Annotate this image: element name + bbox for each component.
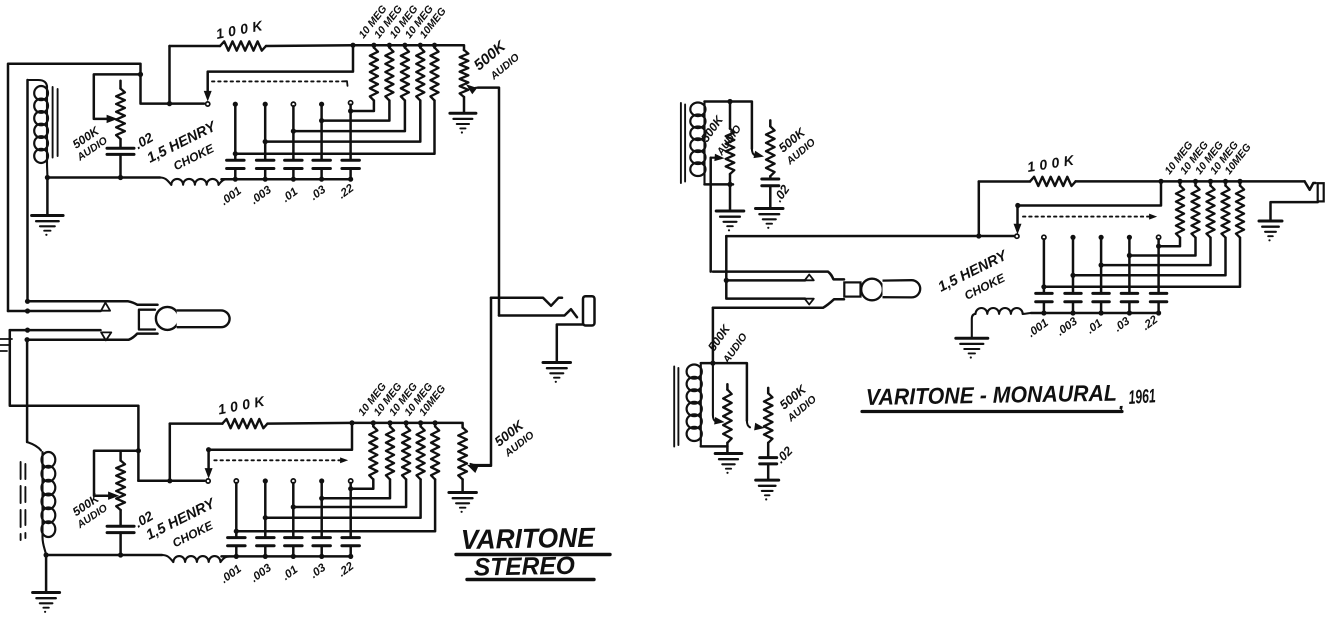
svg-text:.003: .003 — [249, 184, 275, 207]
node: crossing dot on lower spring wire — [25, 328, 30, 333]
switch position contact 3 (top circuit) — [291, 102, 295, 106]
label 10 MEG R1 (top circuit) — [356, 3, 389, 41]
monaural plug collar — [844, 282, 860, 296]
wire: lower coil bottom to pot1b (monaural) — [701, 445, 728, 448]
label 10 MEG R3 (bottom circuit) — [387, 381, 420, 419]
node: R5 to contact wire junction (monaural) — [1041, 284, 1046, 289]
node: C3 bus junction — [291, 177, 296, 182]
jack sleeve bushing — [583, 296, 595, 325]
wire: capacitor ground bus (bottom circuit) — [222, 555, 351, 558]
switch position contact 1 (bottom circuit) — [234, 479, 238, 483]
wire: contact 2 to capacitor C2 (top circuit) — [264, 106, 267, 160]
node: bus junction of 10MEG R1 (top circuit) — [371, 43, 376, 48]
contact triangle up (monaural plug) — [805, 275, 814, 281]
capacitor C3 .01 (top circuit) — [285, 160, 303, 168]
wire: 100K riser — [168, 46, 171, 104]
wiper arrow of output pot (bottom circuit) — [471, 463, 492, 466]
svg-text:.22: .22 — [336, 182, 356, 201]
wire: coil bottom to pot1 bottom (monaural upper) — [705, 183, 734, 186]
stray hatch marks at sheet edge — [0, 339, 12, 351]
node: R1 to contact wire junction (monaural) — [1156, 244, 1161, 249]
node: R5 to contact wire junction (top circuit) — [233, 151, 238, 156]
node: R2 to contact wire junction (bottom circuit) — [319, 496, 324, 501]
resistor R5 10 MEG (monaural) — [1044, 181, 1244, 286]
monaural plug upper body line — [713, 272, 844, 280]
monaural plug lower spring wire — [726, 280, 805, 298]
node: R2 to contact wire junction (top circuit) — [319, 118, 324, 123]
node: bus junction of 10MEG R2 (bottom circuit) — [387, 420, 392, 425]
wire: contact 2 to capacitor C2 (bottom circuit) — [264, 483, 267, 538]
capacitor C5 .22 (top circuit) — [342, 160, 360, 168]
wire: coil top bus (monaural upper) — [705, 102, 752, 149]
resistor R2 10 MEG (bottom circuit) — [322, 423, 394, 498]
potentiometer 500K audio pot2b (monaural lower) — [764, 388, 773, 458]
wiper arrow into pot2b (monaural lower) — [747, 421, 764, 430]
node: bus junction of 10MEG R1 (bottom circuit) — [371, 420, 376, 425]
svg-text:100K: 100K — [215, 16, 269, 42]
wire: jack sleeve to ground — [557, 325, 584, 363]
label 500K AUDIO (pot1, monaural upper) — [698, 112, 744, 158]
svg-text:.01: .01 — [1085, 317, 1105, 336]
label .02 (bottom circuit) — [132, 508, 156, 531]
svg-text:.03: .03 — [308, 183, 328, 202]
inductor 1.5 henry choke (monaural) — [972, 308, 1031, 338]
stereo plug tip ball — [156, 307, 179, 330]
node: C3 bus junction (monaural) — [1099, 310, 1104, 315]
title STEREO — [467, 552, 594, 582]
label 10 MEG R2 (monaural) — [1178, 139, 1211, 177]
node: R3 to contact wire junction (monaural) — [1099, 263, 1104, 268]
capacitor C4 .03 (bottom circuit) — [313, 538, 331, 546]
node: C1 bus junction (monaural) — [1041, 310, 1046, 315]
switch wiper contact (open circle, bottom circuit) — [206, 479, 210, 483]
wire: pickup ground bus (top circuit) — [47, 176, 160, 179]
label .003 capacitor (monaural) — [1055, 315, 1081, 338]
ground under .02 cap (monaural upper) — [756, 209, 784, 229]
jack tip contact line — [491, 298, 562, 306]
wire: plug line to pot1b wiper (monaural lower) — [713, 363, 716, 422]
label 100K (monaural) — [1026, 151, 1079, 175]
svg-text:VARITONE - MONAURAL: VARITONE - MONAURAL — [866, 380, 1117, 410]
label .02 (top circuit) — [132, 129, 156, 152]
capacitor C1 .001 (bottom circuit) — [228, 538, 246, 546]
wire: C5 to ground bus (bottom circuit) — [349, 546, 352, 557]
svg-text:VARITONE: VARITONE — [461, 522, 597, 555]
ground under output pot (bottom circuit) — [449, 493, 477, 513]
label .01 capacitor (top circuit) — [280, 186, 300, 205]
potentiometer 500K audio output (top circuit) — [460, 50, 469, 113]
node: pot1 bottom junction (monaural) — [727, 182, 732, 187]
ground under pickup (bottom circuit) — [33, 555, 60, 613]
node: bus junction of 10MEG R4 (top circuit) — [418, 43, 423, 48]
wire: C3 to ground bus (bottom circuit) — [292, 546, 295, 557]
stereo plug upper body line — [28, 301, 158, 304]
potentiometer 500K audio output (bottom circuit) — [458, 428, 467, 493]
label 100K (bottom circuit) — [217, 392, 271, 418]
label 1.5 HENRY CHOKE (monaural) — [936, 247, 1011, 302]
wire: contact 4 to capacitor C4 (top circuit) — [320, 106, 323, 160]
ground under pot1b (monaural lower) — [715, 454, 742, 474]
label 500K AUDIO (tone pot, bottom circuit) — [70, 491, 110, 532]
dashed rotation line of rotary switch (top circuit) — [212, 81, 348, 86]
capacitor C1 .001 (monaural) — [1036, 293, 1053, 301]
jack tip contact line (monaural) — [1305, 181, 1316, 189]
pickup coil (monaural lower) — [687, 365, 702, 447]
wire: output pot wiper to jack ring contact — [478, 88, 499, 316]
label 10 MEG R4 (monaural) — [1208, 139, 1241, 177]
svg-text:.001: .001 — [219, 185, 244, 208]
node: bus junction of 10MEG R5 (top circuit) — [432, 43, 437, 48]
label 10 MEG R1 (monaural) — [1162, 139, 1195, 177]
dashed rotation line of rotary switch (bottom circuit) — [214, 458, 347, 463]
resistor R2 10 MEG (monaural) — [1129, 181, 1199, 255]
wire: 100K riser (bottom) — [169, 424, 172, 481]
wire: pickup ground bus (bottom circuit) — [46, 554, 162, 557]
pickup core lines (bottom circuit) — [21, 462, 26, 540]
switch position contact 2 (monaural) — [1070, 235, 1075, 240]
wire: switch wiper arm to output bus (monaural) — [1014, 181, 1161, 233]
node J1 (tone pot wiper junction, top circuit) — [138, 72, 143, 77]
wire: C4 to ground bus (bottom circuit) — [320, 546, 323, 557]
wire: J1b to switch common contact (bottom) — [138, 480, 204, 483]
ground of output jack — [543, 363, 571, 383]
switch position contact 4 (bottom circuit) — [319, 478, 324, 483]
capacitor C3 .01 (bottom circuit) — [285, 538, 303, 546]
switch position contact 1 (monaural) — [1042, 235, 1046, 239]
node: bus junction of 10MEG R2 (monaural) — [1193, 179, 1198, 184]
wire: contact 1 to capacitor C1 (top circuit) — [234, 106, 237, 160]
node: bus junction of 10MEG R5 (bottom circuit) — [433, 420, 438, 425]
node: R3 to contact wire junction (top circuit) — [291, 129, 296, 134]
node: .02 cap bus junction (top circuit) — [118, 175, 123, 180]
switch position contact 5 (bottom circuit) — [349, 479, 353, 483]
wiper arrow into pot1b (monaural lower) — [715, 418, 724, 424]
label .01 capacitor (bottom circuit) — [280, 564, 300, 583]
title VARITONE (stereo) — [456, 522, 610, 555]
svg-text:.22: .22 — [1140, 313, 1160, 332]
svg-text:100K: 100K — [1026, 151, 1079, 175]
capacitor C4 .03 (monaural) — [1121, 293, 1138, 301]
node: bus junction of 10MEG R3 (bottom circuit) — [404, 420, 409, 425]
stereo plug collar — [139, 310, 155, 330]
capacitor C2 .003 (bottom circuit) — [257, 538, 275, 546]
label 10 MEG R2 (top circuit) — [372, 3, 405, 41]
capacitor C1 .001 (top circuit) — [227, 160, 245, 168]
wire: contact 1 to capacitor C1 (monaural) — [1043, 239, 1046, 293]
pickup core lines (top circuit) — [53, 87, 58, 158]
wire: contact 3 to capacitor C3 (monaural) — [1100, 239, 1103, 293]
svg-text:.001: .001 — [219, 563, 244, 586]
node: C5 bus junction (monaural) — [1156, 310, 1161, 315]
node: R5 to contact wire junction (bottom circuit) — [234, 529, 239, 534]
label 500K AUDIO (circuit input, monaural lower) — [705, 321, 750, 366]
capacitor C2 .003 (top circuit) — [256, 160, 274, 168]
node: C5 bus junction (bottom) — [348, 554, 353, 559]
pickup core lines (monaural lower) — [674, 367, 678, 447]
node: R2 to contact wire junction (monaural) — [1127, 253, 1132, 258]
label .03 capacitor (monaural) — [1112, 315, 1132, 334]
inductor 1.5 henry choke (bottom circuit) — [162, 555, 230, 562]
ground of output jack (monaural) — [1259, 221, 1282, 241]
wire: contact 3 to capacitor C3 (top circuit) — [292, 106, 295, 160]
label .02 (monaural lower) — [773, 444, 795, 466]
label 1.5 HENRY CHOKE (top circuit) — [145, 118, 220, 173]
node: R4 to contact wire junction (top circuit) — [263, 139, 268, 144]
svg-text:100K: 100K — [217, 392, 271, 418]
ground under pickup (top circuit) — [32, 178, 63, 236]
node J1b (tone pot wiper junction, bottom circuit) — [136, 448, 141, 453]
node: pot1 top junction (monaural) — [727, 99, 732, 104]
label .03 capacitor (bottom circuit) — [308, 561, 328, 580]
wire: tone bus from plug to switch common (monaural) — [726, 235, 1014, 238]
capacitor .02 (top circuit) — [107, 148, 134, 177]
wire: plug springs to tone bus (monaural) — [725, 236, 728, 280]
wire: C4 to ground bus (top circuit) — [320, 169, 323, 180]
resistor R5 10 MEG (bottom circuit) — [236, 423, 439, 531]
resistor R4 10 MEG (bottom circuit) — [265, 423, 424, 518]
switch position contact 2 (top circuit) — [263, 102, 268, 107]
node: 100K riser junction (monaural) — [976, 233, 981, 238]
stereo plug lower body line — [27, 334, 157, 340]
node: R3 to contact wire junction (bottom circuit) — [291, 504, 296, 509]
node: C1 bus junction — [233, 177, 238, 182]
resistor R3 10 MEG (top circuit) — [293, 45, 409, 131]
node: plug upper contact junction — [25, 299, 30, 304]
label 500K AUDIO (pot2, monaural upper) — [776, 125, 818, 168]
wiper arrow of output pot (top circuit) — [467, 85, 478, 94]
jack sleeve bushing (monaural) — [1318, 183, 1324, 201]
label .03 capacitor (top circuit) — [308, 183, 328, 202]
node: C4 bus junction — [319, 177, 324, 182]
wire: contact 5 to capacitor C5 (monaural) — [1157, 239, 1160, 293]
resistor R1 10 MEG (top circuit) — [351, 45, 378, 111]
node: bus junction of 10MEG R4 (bottom circuit) — [418, 420, 423, 425]
capacitor .02 (monaural lower) — [760, 458, 777, 481]
node: wiper arm corner (bottom circuit) — [206, 447, 211, 452]
node: bus junction of 10MEG R3 (top circuit) — [402, 43, 407, 48]
monaural plug upper spring wire — [726, 279, 805, 282]
capacitor C3 .01 (monaural) — [1093, 293, 1110, 301]
node: plug lower contact junction — [25, 337, 30, 342]
node: C2 bus junction — [263, 177, 268, 182]
potentiometer 500K audio pot1 (monaural upper) — [726, 102, 735, 185]
label 500K AUDIO (pot2b, monaural lower) — [777, 382, 819, 425]
pickup coil (monaural upper) — [690, 102, 705, 185]
wire: 100K riser (monaural) — [978, 182, 981, 237]
capacitor C2 .003 (monaural) — [1065, 293, 1081, 301]
wire: J1 down to switch common contact — [141, 74, 205, 103]
stereo plug handle — [177, 310, 230, 327]
wiper arrow into pot1 (monaural upper) — [711, 154, 724, 160]
svg-text:.01: .01 — [280, 186, 300, 205]
switch position contact 1 (top circuit) — [233, 102, 238, 107]
wire: jack spring to plug sleeve (from top-left rail) — [8, 310, 101, 313]
wire: capacitor ground bus (monaural) — [1031, 312, 1159, 315]
label .02 (monaural upper) — [771, 182, 792, 204]
node: coil-bus junction (top circuit) — [45, 175, 50, 180]
capacitor C5 .22 (monaural) — [1150, 293, 1167, 301]
resistor R4 10 MEG (top circuit) — [265, 45, 424, 141]
node J2b (100K tap, bottom circuit) — [167, 478, 172, 483]
node: R4 to contact wire junction (bottom circuit) — [263, 515, 268, 520]
node: coil-bus junction (bottom circuit) — [44, 552, 49, 557]
title VARITONE - MONAURAL, 1961 — [862, 380, 1156, 414]
label .22 capacitor (top circuit) — [336, 182, 356, 201]
wire: C1 to ground bus (monaural) — [1043, 302, 1046, 313]
pickup core lines (monaural upper) — [681, 103, 685, 183]
wire: C1 to ground bus (bottom circuit) — [235, 546, 238, 557]
label 500K AUDIO (output pot, top circuit) — [471, 37, 522, 83]
svg-text:1961: 1961 — [1128, 385, 1156, 409]
wire: C5 to ground bus (top circuit) — [349, 169, 352, 180]
label 500K AUDIO (tone pot, top circuit) — [70, 123, 110, 164]
wire: C1 to ground bus (top circuit) — [234, 169, 237, 180]
wiper arrow into 500K pot2 (monaural upper) — [752, 149, 763, 158]
node: bus junction of wiper arm riser — [350, 43, 355, 48]
wire: contact 5 to capacitor C5 (bottom circuit) — [349, 483, 352, 538]
label 10 MEG R5 (monaural) — [1222, 141, 1253, 176]
svg-text:.01: .01 — [280, 564, 300, 583]
monaural plug lower body line — [713, 299, 844, 308]
resistor 100K (monaural) — [979, 177, 1305, 186]
potentiometer 500K tone (bottom circuit) — [116, 453, 125, 527]
wire: C5 to ground bus (monaural) — [1157, 302, 1160, 313]
wire: C2 to ground bus (monaural) — [1072, 302, 1075, 313]
jack ring contact line — [499, 309, 577, 317]
label 10 MEG R2 (bottom circuit) — [371, 381, 404, 419]
wire: plug lower line down to lower pickup (monaural) — [712, 308, 715, 363]
resistor R4 10 MEG (monaural) — [1073, 181, 1230, 275]
label .001 capacitor (monaural) — [1026, 317, 1051, 340]
node: crossing dot on spring wire — [25, 308, 30, 313]
switch position contact 5 (top circuit) — [349, 101, 353, 105]
svg-text:.03: .03 — [308, 561, 328, 580]
label .01 capacitor (monaural) — [1085, 317, 1105, 336]
wire: switch wiper arm to output bus (bottom circuit) — [205, 423, 352, 478]
label 10 MEG R5 (bottom circuit) — [417, 383, 448, 418]
ground under pot1 (monaural upper) — [716, 184, 744, 231]
label .001 capacitor (bottom circuit) — [219, 563, 244, 586]
wiper arrow into tone pot (top circuit) — [107, 115, 117, 122]
node: C2 bus junction (monaural) — [1070, 310, 1075, 315]
label 100K (top circuit) — [215, 16, 269, 42]
wire: jack tip down to bottom-circuit output pot wiper — [468, 298, 491, 473]
label 10 MEG R1 (bottom circuit) — [356, 381, 389, 419]
switch position contact 2 (bottom circuit) — [263, 478, 268, 483]
svg-text:.003: .003 — [1055, 315, 1081, 338]
label 10 MEG R3 (monaural) — [1193, 139, 1226, 177]
label .003 capacitor (top circuit) — [249, 184, 275, 207]
resistor R1 10 MEG (bottom circuit) — [351, 423, 378, 489]
inductor 1.5 henry choke (top circuit) — [160, 178, 228, 185]
wire: switch wiper arm to output bus (top circuit) — [204, 45, 353, 100]
node: C1 bus junction (bottom) — [234, 554, 239, 559]
wire: bottom-left rail from plug to bottom circuit input — [10, 330, 139, 481]
node: C4 bus junction (bottom) — [319, 554, 324, 559]
resistor R2 10 MEG (top circuit) — [322, 45, 394, 120]
label 500K AUDIO (output pot, bottom circuit) — [492, 417, 537, 460]
pickup coil (bottom circuit) — [27, 442, 55, 555]
node: C2 bus junction (bottom) — [263, 554, 268, 559]
label 10 MEG R5 (top circuit) — [417, 5, 448, 40]
dashed rotation line of rotary switch (monaural) — [1023, 214, 1156, 219]
switch position contact 5 (monaural) — [1157, 235, 1161, 239]
label 10 MEG R4 (top circuit) — [403, 3, 436, 41]
node: bus junction of wiper arm riser (bottom) — [349, 420, 354, 425]
switch position contact 3 (bottom circuit) — [291, 479, 295, 483]
wire: lower coil top bus (monaural) — [701, 363, 747, 420]
node: C4 bus junction (monaural) — [1127, 310, 1132, 315]
monaural plug tip ball — [861, 279, 883, 301]
pickup coil (top circuit) — [28, 80, 48, 178]
wire: contact 5 to capacitor C5 (top circuit) — [349, 105, 352, 161]
node J2 (100K tap, top circuit) — [167, 101, 172, 106]
wire: bracket from J1 to tone pot wiper — [94, 74, 141, 119]
node: R1 to contact wire junction (bottom circuit) — [348, 486, 353, 491]
node: C5 bus junction — [348, 177, 353, 182]
switch wiper contact (open circle, monaural) — [1015, 234, 1019, 238]
node: bus junction of 10MEG R2 (top circuit) — [387, 43, 392, 48]
switch wiper contact (open circle, top circuit) — [206, 102, 210, 106]
node: .02 cap bus junction (bottom circuit) — [118, 552, 123, 557]
wire: C4 to ground bus (monaural) — [1128, 302, 1131, 313]
monaural plug handle — [883, 280, 921, 297]
wire: bracket from J1b to tone pot wiper (bottom) — [94, 451, 138, 496]
wire: C3 to ground bus (monaural) — [1100, 302, 1103, 313]
capacitor .02 (monaural upper) — [762, 179, 779, 209]
ground under .02 cap (monaural lower) — [756, 480, 779, 500]
label .22 capacitor (monaural) — [1140, 313, 1160, 332]
capacitor C5 .22 (bottom circuit) — [342, 538, 360, 546]
node: R1 to contact wire junction (top circuit) — [348, 108, 353, 113]
resistor 100K (bottom circuit) — [170, 419, 463, 428]
ground under choke (monaural) — [956, 338, 988, 358]
wire: pickup hot down to stereo plug body (top circuit) — [26, 80, 29, 301]
svg-text:.001: .001 — [1026, 317, 1051, 340]
resistor R1 10 MEG (monaural) — [1159, 181, 1185, 246]
wire: contact 1 to capacitor C1 (bottom circuit) — [235, 483, 238, 538]
node: bus junction of 10MEG R4 (monaural) — [1223, 179, 1228, 184]
label 10 MEG R3 (top circuit) — [387, 3, 420, 41]
node: bus junction of wiper arm riser (monaural) — [1158, 179, 1163, 184]
capacitor .02 (bottom circuit) — [107, 526, 134, 555]
wire: monaural jack to ground — [1271, 202, 1318, 221]
node: plug line to lower pickup junction (monaural) — [710, 361, 715, 366]
resistor 100K (top circuit) — [170, 41, 465, 50]
resistor R3 10 MEG (monaural) — [1101, 181, 1215, 265]
wire: plug lower contact down to bottom pickup — [26, 340, 29, 442]
label .003 capacitor (bottom circuit) — [249, 562, 275, 585]
svg-text:.22: .22 — [336, 560, 356, 579]
switch position contact 3 (monaural) — [1099, 235, 1104, 240]
wire: contact 4 to capacitor C4 (monaural) — [1128, 239, 1131, 293]
wiper arrow into tone pot (bottom circuit) — [109, 492, 119, 499]
svg-text:.003: .003 — [249, 562, 275, 585]
wire: C2 to ground bus (bottom circuit) — [264, 546, 267, 557]
wire: C3 to ground bus (top circuit) — [292, 169, 295, 180]
node: bus junction of 10MEG R3 (monaural) — [1208, 179, 1213, 184]
wire: capacitor ground bus (top circuit) — [222, 178, 351, 181]
node: bus junction of 10MEG R1 (monaural) — [1177, 179, 1182, 184]
contact triangle up (stereo plug) — [101, 303, 110, 311]
potentiometer 500K audio pot2 (monaural upper) — [766, 120, 775, 179]
wire: C2 to ground bus (top circuit) — [264, 169, 267, 180]
node: C3 bus junction (bottom) — [291, 554, 296, 559]
label .22 capacitor (bottom circuit) — [336, 560, 356, 579]
switch position contact 4 (monaural) — [1127, 235, 1132, 240]
potentiometer 500K tone (top circuit) — [116, 81, 125, 148]
contact triangle down (monaural plug) — [805, 299, 814, 305]
